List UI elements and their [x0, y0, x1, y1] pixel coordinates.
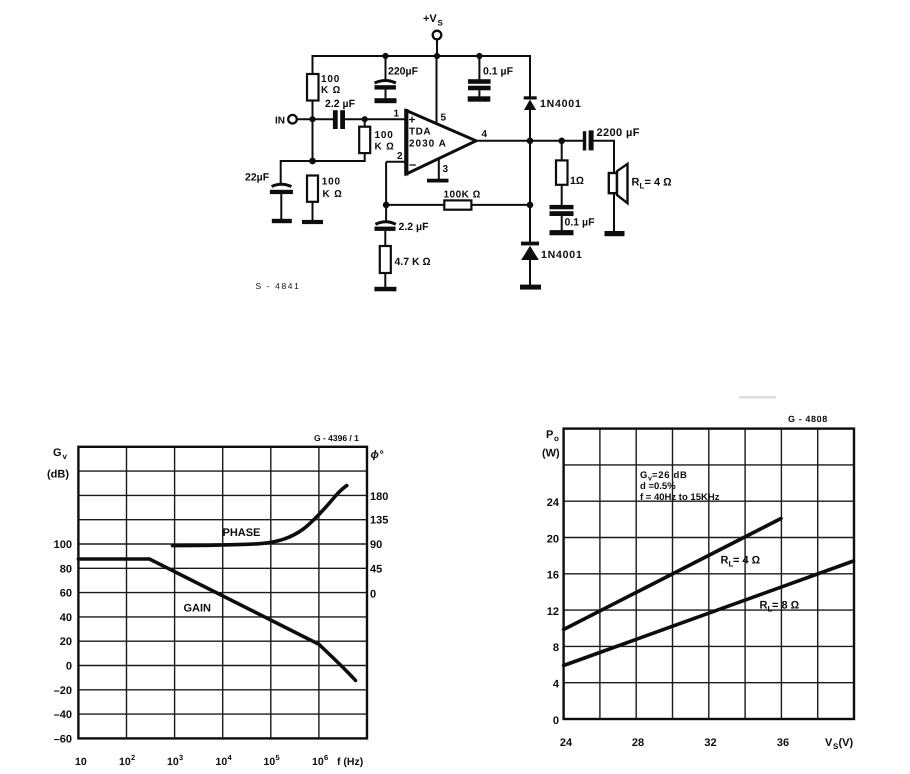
svg-text:5: 5 [276, 753, 280, 762]
ground under speaker [605, 231, 625, 236]
svg-text:1Ω: 1Ω [570, 175, 584, 187]
IN terminal [288, 115, 297, 124]
wire C5 to speaker [594, 141, 614, 173]
resistor R2 100 kOhm body [359, 127, 370, 153]
svg-text:180: 180 [370, 491, 388, 503]
RL=8 Ohm power curve [564, 561, 854, 666]
wire R6 to ground [384, 273, 386, 288]
svg-text:=26 dB: =26 dB [652, 470, 688, 481]
wire C6 to ground [561, 216, 563, 231]
svg-text:R: R [721, 555, 729, 567]
svg-text:S: S [438, 19, 444, 28]
svg-text:10: 10 [119, 756, 131, 768]
svg-text:= 4 Ω: = 4 Ω [733, 555, 760, 567]
node: rail-220uF junction [382, 53, 388, 59]
svg-text:+: + [409, 113, 416, 127]
svg-text:6: 6 [324, 753, 328, 762]
wire output node down to feedback node [529, 141, 531, 242]
svg-text:V: V [825, 737, 833, 749]
wire R3 to ground [312, 202, 314, 221]
node: output / D1 junction [527, 138, 534, 145]
svg-text:4: 4 [482, 129, 488, 140]
+Vs supply label [423, 13, 444, 28]
node: feedback R4 junction [383, 202, 390, 209]
RL=4 Ohm curve label [721, 555, 761, 569]
svg-text:12: 12 [547, 606, 559, 618]
R1 value label [321, 74, 341, 96]
wire node to R2 [364, 119, 366, 127]
ground under R6 [374, 287, 396, 292]
wire C7 to R6 [384, 231, 386, 246]
svg-text:5: 5 [441, 113, 447, 124]
svg-text:ϕ°: ϕ° [371, 449, 384, 461]
wire bias node down to C1 [280, 160, 282, 184]
svg-text:3: 3 [443, 164, 449, 175]
svg-text:8: 8 [553, 642, 559, 654]
node: rail-Vs junction [434, 53, 440, 59]
svg-text:–20: –20 [54, 685, 72, 697]
capacitor C2 2.2uF plates [333, 110, 338, 129]
svg-text:4: 4 [553, 679, 560, 691]
right chart frame [564, 429, 854, 719]
svg-text:80: 80 [60, 563, 72, 575]
resistor R3 100 kOhm body [307, 176, 318, 202]
svg-text:2200 µF: 2200 µF [597, 127, 640, 139]
left chart right-axis labels [370, 491, 388, 601]
svg-text:24: 24 [547, 497, 560, 509]
svg-text:o: o [554, 434, 559, 443]
svg-text:K Ω: K Ω [321, 85, 341, 96]
svg-text:v: v [63, 452, 68, 461]
svg-text:2: 2 [397, 151, 403, 162]
node: rail-0.1uF junction [476, 53, 482, 59]
svg-text:IN: IN [275, 116, 285, 127]
svg-text:1: 1 [394, 109, 400, 120]
svg-text:2: 2 [131, 753, 135, 762]
svg-text:0.1 µF: 0.1 µF [565, 217, 596, 229]
right chart x-axis labels [560, 737, 789, 749]
ground under C3 [375, 98, 397, 103]
svg-text:K Ω: K Ω [375, 142, 395, 153]
wire node to R4 [386, 204, 444, 206]
svg-text:G: G [640, 470, 647, 481]
svg-text:G - 4808: G - 4808 [788, 414, 828, 424]
node: output / Zobel junction [558, 138, 565, 145]
resistor R4 100 kOhm body [444, 200, 471, 209]
op-amp U1 TDA2030A triangle [406, 111, 476, 175]
svg-text:2030 A: 2030 A [409, 139, 447, 150]
wire D1 to output node [529, 110, 531, 142]
gain curve [78, 559, 355, 681]
svg-text:f (Hz): f (Hz) [337, 756, 363, 768]
node: bias junction [309, 158, 316, 165]
svg-text:S - 4841: S - 4841 [256, 281, 301, 291]
svg-text:0.1 µF: 0.1 µF [483, 66, 514, 78]
node: pin1 / R2 junction [362, 116, 368, 122]
svg-text:–: – [409, 157, 416, 172]
svg-text:PHASE: PHASE [223, 527, 261, 539]
right chart grid [564, 429, 854, 719]
RL=4 Ohm power curve [564, 519, 781, 630]
resistor R1 100 kOhm body [307, 74, 319, 101]
left chart y-axis title Gv (dB) [47, 447, 69, 481]
svg-text:2.2 µF: 2.2 µF [325, 98, 356, 110]
wire speaker to ground [613, 193, 615, 231]
svg-text:16: 16 [547, 570, 559, 582]
wire pin 5 to supply rail [436, 56, 438, 124]
capacitor C4 0.1uF plates [468, 79, 491, 84]
right chart x-axis title Vs (V) [825, 737, 854, 751]
svg-text:60: 60 [60, 588, 72, 600]
svg-text:22µF: 22µF [245, 172, 270, 184]
svg-text:2.2 µF: 2.2 µF [399, 221, 430, 233]
svg-text:40: 40 [60, 612, 72, 624]
wire rail left end down to R1 [312, 55, 314, 74]
svg-text:1N4001: 1N4001 [541, 249, 583, 261]
wire R4 to output column [471, 204, 530, 206]
R3 value label [322, 177, 343, 201]
svg-text:4.7 K Ω: 4.7 K Ω [395, 256, 431, 268]
wire IN to C2 [297, 118, 333, 120]
phase curve [173, 486, 347, 546]
svg-text:10: 10 [75, 756, 87, 768]
capacitor C3 220uF plates [375, 81, 396, 84]
svg-text:+V: +V [423, 13, 437, 25]
R2 value label [375, 130, 395, 153]
svg-text:K Ω: K Ω [323, 189, 343, 200]
wire output to R5 [561, 141, 563, 161]
op-amp TDA 2030 A label [409, 127, 447, 150]
svg-text:G: G [53, 447, 62, 459]
wire R5 to C6 [561, 185, 563, 206]
wire op-amp output pin 4 [476, 140, 583, 142]
svg-text:28: 28 [632, 737, 644, 749]
svg-text:20: 20 [60, 636, 72, 648]
supply rail wire [313, 55, 531, 57]
wire rail right end down to D1 [529, 56, 530, 97]
wire C2 to op-amp pin 1 [345, 118, 406, 120]
svg-text:R: R [760, 600, 768, 612]
resistor R6 4.7 kOhm body [380, 246, 391, 273]
right chart y-axis labels [547, 497, 560, 727]
svg-text:36: 36 [777, 737, 789, 749]
wire pin 2 stub [386, 161, 406, 163]
+Vs terminal [433, 31, 442, 40]
right chart test conditions annotation [640, 470, 720, 503]
wire rail to C4 [478, 56, 480, 79]
svg-text:0: 0 [553, 715, 559, 727]
left chart y-axis labels [54, 539, 72, 745]
capacitor C5 2200uF plates [583, 131, 586, 150]
svg-text:1N4001: 1N4001 [540, 98, 582, 110]
svg-text:135: 135 [370, 515, 388, 527]
wire C1 to ground [280, 194, 282, 219]
svg-text:d =0.5%: d =0.5% [640, 481, 676, 492]
wire pin2 down to feedback network [385, 162, 387, 221]
svg-text:–40: –40 [54, 709, 72, 721]
svg-text:10: 10 [264, 756, 276, 768]
wire D2 to ground [529, 260, 531, 286]
svg-text:3: 3 [179, 753, 183, 762]
svg-text:20: 20 [547, 533, 559, 545]
diode D2 1N4001 [521, 242, 539, 260]
capacitor C7 2.2uF plates [375, 222, 395, 225]
node: IN / R1 junction [309, 116, 315, 122]
svg-text:24: 24 [560, 737, 573, 749]
svg-text:100: 100 [321, 74, 340, 85]
resistor R5 1 Ohm body [556, 160, 568, 184]
wire +Vs to rail [436, 39, 438, 56]
wire R2 down then left to bias node [281, 153, 365, 161]
svg-text:100: 100 [54, 539, 72, 551]
wire R1 to input node and down to lower node [312, 101, 314, 162]
svg-text:–60: –60 [54, 733, 72, 745]
svg-text:100: 100 [322, 177, 341, 188]
speaker RL driver box [609, 173, 617, 193]
left chart frame [78, 447, 367, 739]
wire C3 to ground [385, 90, 387, 99]
left chart grid [78, 447, 367, 739]
speaker load label RL=4 Ohm [632, 177, 672, 191]
svg-text:P: P [546, 429, 553, 441]
svg-text:10: 10 [216, 756, 228, 768]
scan smudge mark [739, 396, 776, 399]
svg-text:= 8 Ω: = 8 Ω [772, 600, 799, 612]
svg-text:100K Ω: 100K Ω [444, 190, 481, 201]
svg-text:GAIN: GAIN [184, 603, 212, 615]
svg-text:(W): (W) [542, 448, 560, 460]
ground under C4 [468, 96, 491, 101]
svg-text:90: 90 [370, 539, 382, 551]
capacitor C6 0.1uF plates [550, 205, 574, 209]
node: feedback / D2 junction [527, 202, 534, 209]
ground under C6 [550, 230, 574, 235]
speaker RL cone [617, 164, 628, 203]
svg-text:(dB): (dB) [47, 469, 69, 481]
right chart y-axis title Po (W) [542, 429, 560, 460]
wire pin 3 to ground [438, 158, 440, 180]
svg-text:G - 4396 / 1: G - 4396 / 1 [314, 433, 359, 443]
svg-text:220µF: 220µF [388, 66, 419, 78]
svg-text:R: R [632, 177, 640, 189]
ground under C1 [272, 219, 292, 223]
svg-text:45: 45 [370, 563, 382, 575]
ground under D2 [520, 285, 541, 290]
svg-text:10: 10 [167, 756, 179, 768]
svg-text:0: 0 [66, 661, 72, 673]
svg-text:= 4 Ω: = 4 Ω [645, 177, 672, 189]
RL=8 Ohm curve label [760, 600, 800, 614]
left chart x-axis labels [75, 753, 363, 768]
svg-text:100: 100 [375, 130, 394, 141]
svg-text:TDA: TDA [409, 127, 431, 138]
wire rail to C3 [385, 56, 387, 80]
svg-text:f = 40Hz to 15KHz: f = 40Hz to 15KHz [640, 492, 720, 503]
wire C4 to ground [478, 90, 480, 97]
svg-text:32: 32 [704, 737, 716, 749]
ground under pin 3 [427, 179, 449, 183]
capacitor C1 22uF plates [272, 184, 292, 186]
svg-text:(V): (V) [839, 737, 854, 749]
diode D1 1N4001 [524, 96, 537, 110]
svg-text:0: 0 [370, 589, 376, 601]
svg-text:10: 10 [312, 756, 324, 768]
ground under R3 [302, 220, 323, 224]
